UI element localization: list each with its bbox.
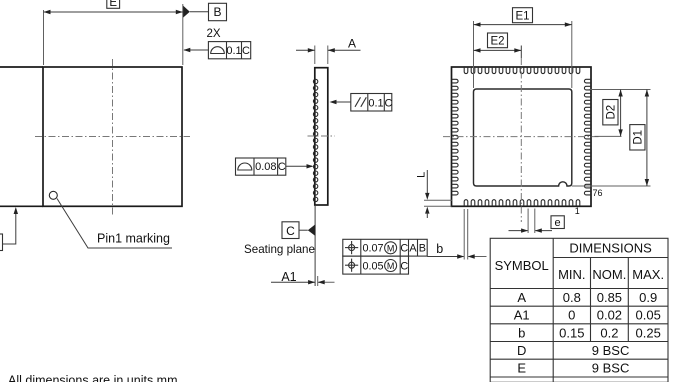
svg-text:b: b <box>518 325 525 340</box>
svg-text:0.85: 0.85 <box>597 290 622 305</box>
svg-text:0.25: 0.25 <box>636 325 661 340</box>
svg-text:NOM.: NOM. <box>592 267 626 282</box>
svg-text:e: e <box>555 217 561 229</box>
svg-text:A: A <box>409 243 417 255</box>
svg-text:C: C <box>400 260 408 272</box>
svg-text:0.08: 0.08 <box>255 161 276 173</box>
svg-text:D: D <box>517 343 526 358</box>
svg-text:0.9: 0.9 <box>639 290 657 305</box>
svg-text:E: E <box>517 361 526 376</box>
svg-text:9 BSC: 9 BSC <box>592 361 630 376</box>
svg-text:C: C <box>385 98 393 110</box>
svg-text:All dimensions are in units mm: All dimensions are in units mm <box>8 374 178 382</box>
svg-text:C: C <box>278 161 286 173</box>
svg-text:0.2: 0.2 <box>600 325 618 340</box>
svg-text:0.05: 0.05 <box>363 260 384 272</box>
svg-text:0.8: 0.8 <box>563 290 581 305</box>
svg-text:b: b <box>436 242 443 256</box>
svg-text:E2: E2 <box>490 36 504 48</box>
svg-text:A1: A1 <box>281 270 296 284</box>
svg-text:B: B <box>419 243 426 255</box>
svg-text:0.07: 0.07 <box>363 243 384 255</box>
svg-text:Seating plane: Seating plane <box>244 243 315 256</box>
svg-text:76: 76 <box>593 188 603 198</box>
svg-text:0.05: 0.05 <box>636 308 661 323</box>
svg-text:M: M <box>387 261 395 271</box>
svg-text:A: A <box>348 37 356 51</box>
svg-text:1: 1 <box>575 206 580 216</box>
svg-text:0.1: 0.1 <box>368 98 383 110</box>
svg-text:E1: E1 <box>515 10 529 22</box>
svg-text:C: C <box>242 45 250 57</box>
svg-text:0.15: 0.15 <box>559 325 584 340</box>
svg-text:L: L <box>416 172 428 178</box>
svg-text:MIN.: MIN. <box>558 267 585 282</box>
svg-text:9 BSC: 9 BSC <box>592 343 630 358</box>
svg-text:0: 0 <box>568 308 575 323</box>
svg-text:2X: 2X <box>207 28 221 40</box>
svg-text:M: M <box>387 243 395 253</box>
svg-text:D1: D1 <box>632 130 644 145</box>
svg-text:C: C <box>286 224 295 238</box>
svg-text:0.02: 0.02 <box>597 308 622 323</box>
svg-text:D2: D2 <box>605 105 617 120</box>
svg-text:SYMBOL: SYMBOL <box>495 258 549 273</box>
svg-text:DIMENSIONS: DIMENSIONS <box>569 241 652 256</box>
svg-text:Pin1 marking: Pin1 marking <box>97 232 170 246</box>
svg-text:C: C <box>400 243 408 255</box>
svg-text:E: E <box>109 0 117 9</box>
svg-text:0.1: 0.1 <box>226 45 241 57</box>
svg-text:MAX.: MAX. <box>632 267 664 282</box>
svg-text:A1: A1 <box>514 308 530 323</box>
svg-text:B: B <box>213 5 221 19</box>
svg-text:A: A <box>517 290 526 305</box>
